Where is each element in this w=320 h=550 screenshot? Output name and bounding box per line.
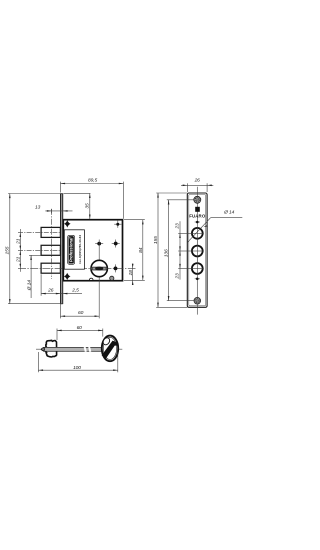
screw dot D4 xyxy=(112,240,120,248)
Professional badge xyxy=(67,235,75,265)
small screw dot (lower) xyxy=(195,278,200,281)
screw dot D6 xyxy=(114,264,118,272)
svg-text:Ø 14: Ø 14 xyxy=(26,280,32,292)
screw dot D2 xyxy=(114,221,121,228)
dim 35 xyxy=(64,193,91,219)
dim 136 xyxy=(163,200,194,301)
faceplate inner offset xyxy=(189,195,206,306)
faceplate bar (edge view) xyxy=(60,194,62,305)
faceplate outer xyxy=(187,193,207,307)
svg-text:21: 21 xyxy=(16,238,22,245)
dim 89.5 xyxy=(60,178,123,219)
dim Ø14 leader (holes) xyxy=(187,209,242,242)
svg-text:21: 21 xyxy=(16,256,22,263)
dim 18 xyxy=(128,264,134,286)
shaft white break marks xyxy=(84,347,87,352)
screw dot D3 xyxy=(95,242,103,246)
svg-text:89,5: 89,5 xyxy=(88,178,97,184)
svg-text:23: 23 xyxy=(175,273,181,280)
svg-text:тел.8(495)780-44-64: тел.8(495)780-44-64 xyxy=(78,235,82,264)
svg-text:26: 26 xyxy=(47,288,54,294)
hole 2 xyxy=(192,246,203,257)
svg-text:26: 26 xyxy=(194,177,201,183)
bolt/cylinder shared centerline xyxy=(18,267,136,269)
dim 26 (plate width) xyxy=(181,177,213,192)
dim 155 (main view) xyxy=(5,194,63,304)
bolt vertical centerline xyxy=(51,209,53,279)
svg-text:FUARO: FUARO xyxy=(189,213,206,218)
svg-text:23: 23 xyxy=(175,223,181,230)
bolt centerline 1 xyxy=(18,231,60,233)
hole centerlines xyxy=(191,232,204,234)
svg-text:60: 60 xyxy=(77,325,83,331)
bolt 2 xyxy=(41,245,60,255)
bolt centerline 2 xyxy=(18,249,60,251)
bottom edge dome (left) xyxy=(89,278,93,280)
dim 60 (backset) xyxy=(60,304,99,318)
screw diamond D5 xyxy=(64,273,71,280)
svg-text:13: 13 xyxy=(35,205,41,211)
svg-text:155: 155 xyxy=(5,246,11,254)
dim 13 xyxy=(35,205,73,214)
bottom edge post (gray circle) xyxy=(110,276,114,280)
dim 155 (plate) xyxy=(153,193,188,307)
cylinder xyxy=(91,260,107,276)
svg-text:35: 35 xyxy=(85,203,91,209)
key bit xyxy=(45,340,56,357)
key bow xyxy=(102,336,119,362)
dim Ø14 leader (bolt) xyxy=(26,255,41,298)
dim 21 upper / 21 lower xyxy=(16,229,22,272)
hole 1 xyxy=(192,228,203,239)
dim 84 (body height) xyxy=(124,220,145,281)
dim 100 (key overall) xyxy=(38,352,117,373)
svg-text:100: 100 xyxy=(73,365,81,371)
dim 23 / 23 xyxy=(175,221,192,279)
bolt 1 xyxy=(41,227,60,237)
svg-text:2,5: 2,5 xyxy=(71,288,79,294)
screw diamond D1 xyxy=(64,220,71,227)
dim 26 / 2.5 xyxy=(41,274,82,296)
cylinder vertical centerline xyxy=(98,240,100,319)
small screw dot (upper) xyxy=(195,221,200,224)
svg-text:60: 60 xyxy=(78,310,84,316)
label plate frame xyxy=(64,230,84,269)
logo square xyxy=(195,207,200,212)
bottom screw xyxy=(194,297,201,304)
top screw xyxy=(194,196,201,203)
hole 3 xyxy=(192,263,203,274)
plate centerline xyxy=(196,187,198,315)
dim 60 (key) xyxy=(57,325,103,340)
svg-text:84: 84 xyxy=(138,247,144,253)
svg-text:Professional: Professional xyxy=(69,237,74,262)
svg-text:136: 136 xyxy=(163,249,169,257)
svg-text:155: 155 xyxy=(153,236,159,244)
svg-text:18: 18 xyxy=(128,270,134,276)
key shaft xyxy=(44,347,103,351)
svg-text:Ø 14: Ø 14 xyxy=(223,209,235,215)
bolt 3 xyxy=(41,263,60,273)
key tip xyxy=(41,347,45,351)
lock body xyxy=(63,220,122,281)
key centerline xyxy=(36,348,122,350)
